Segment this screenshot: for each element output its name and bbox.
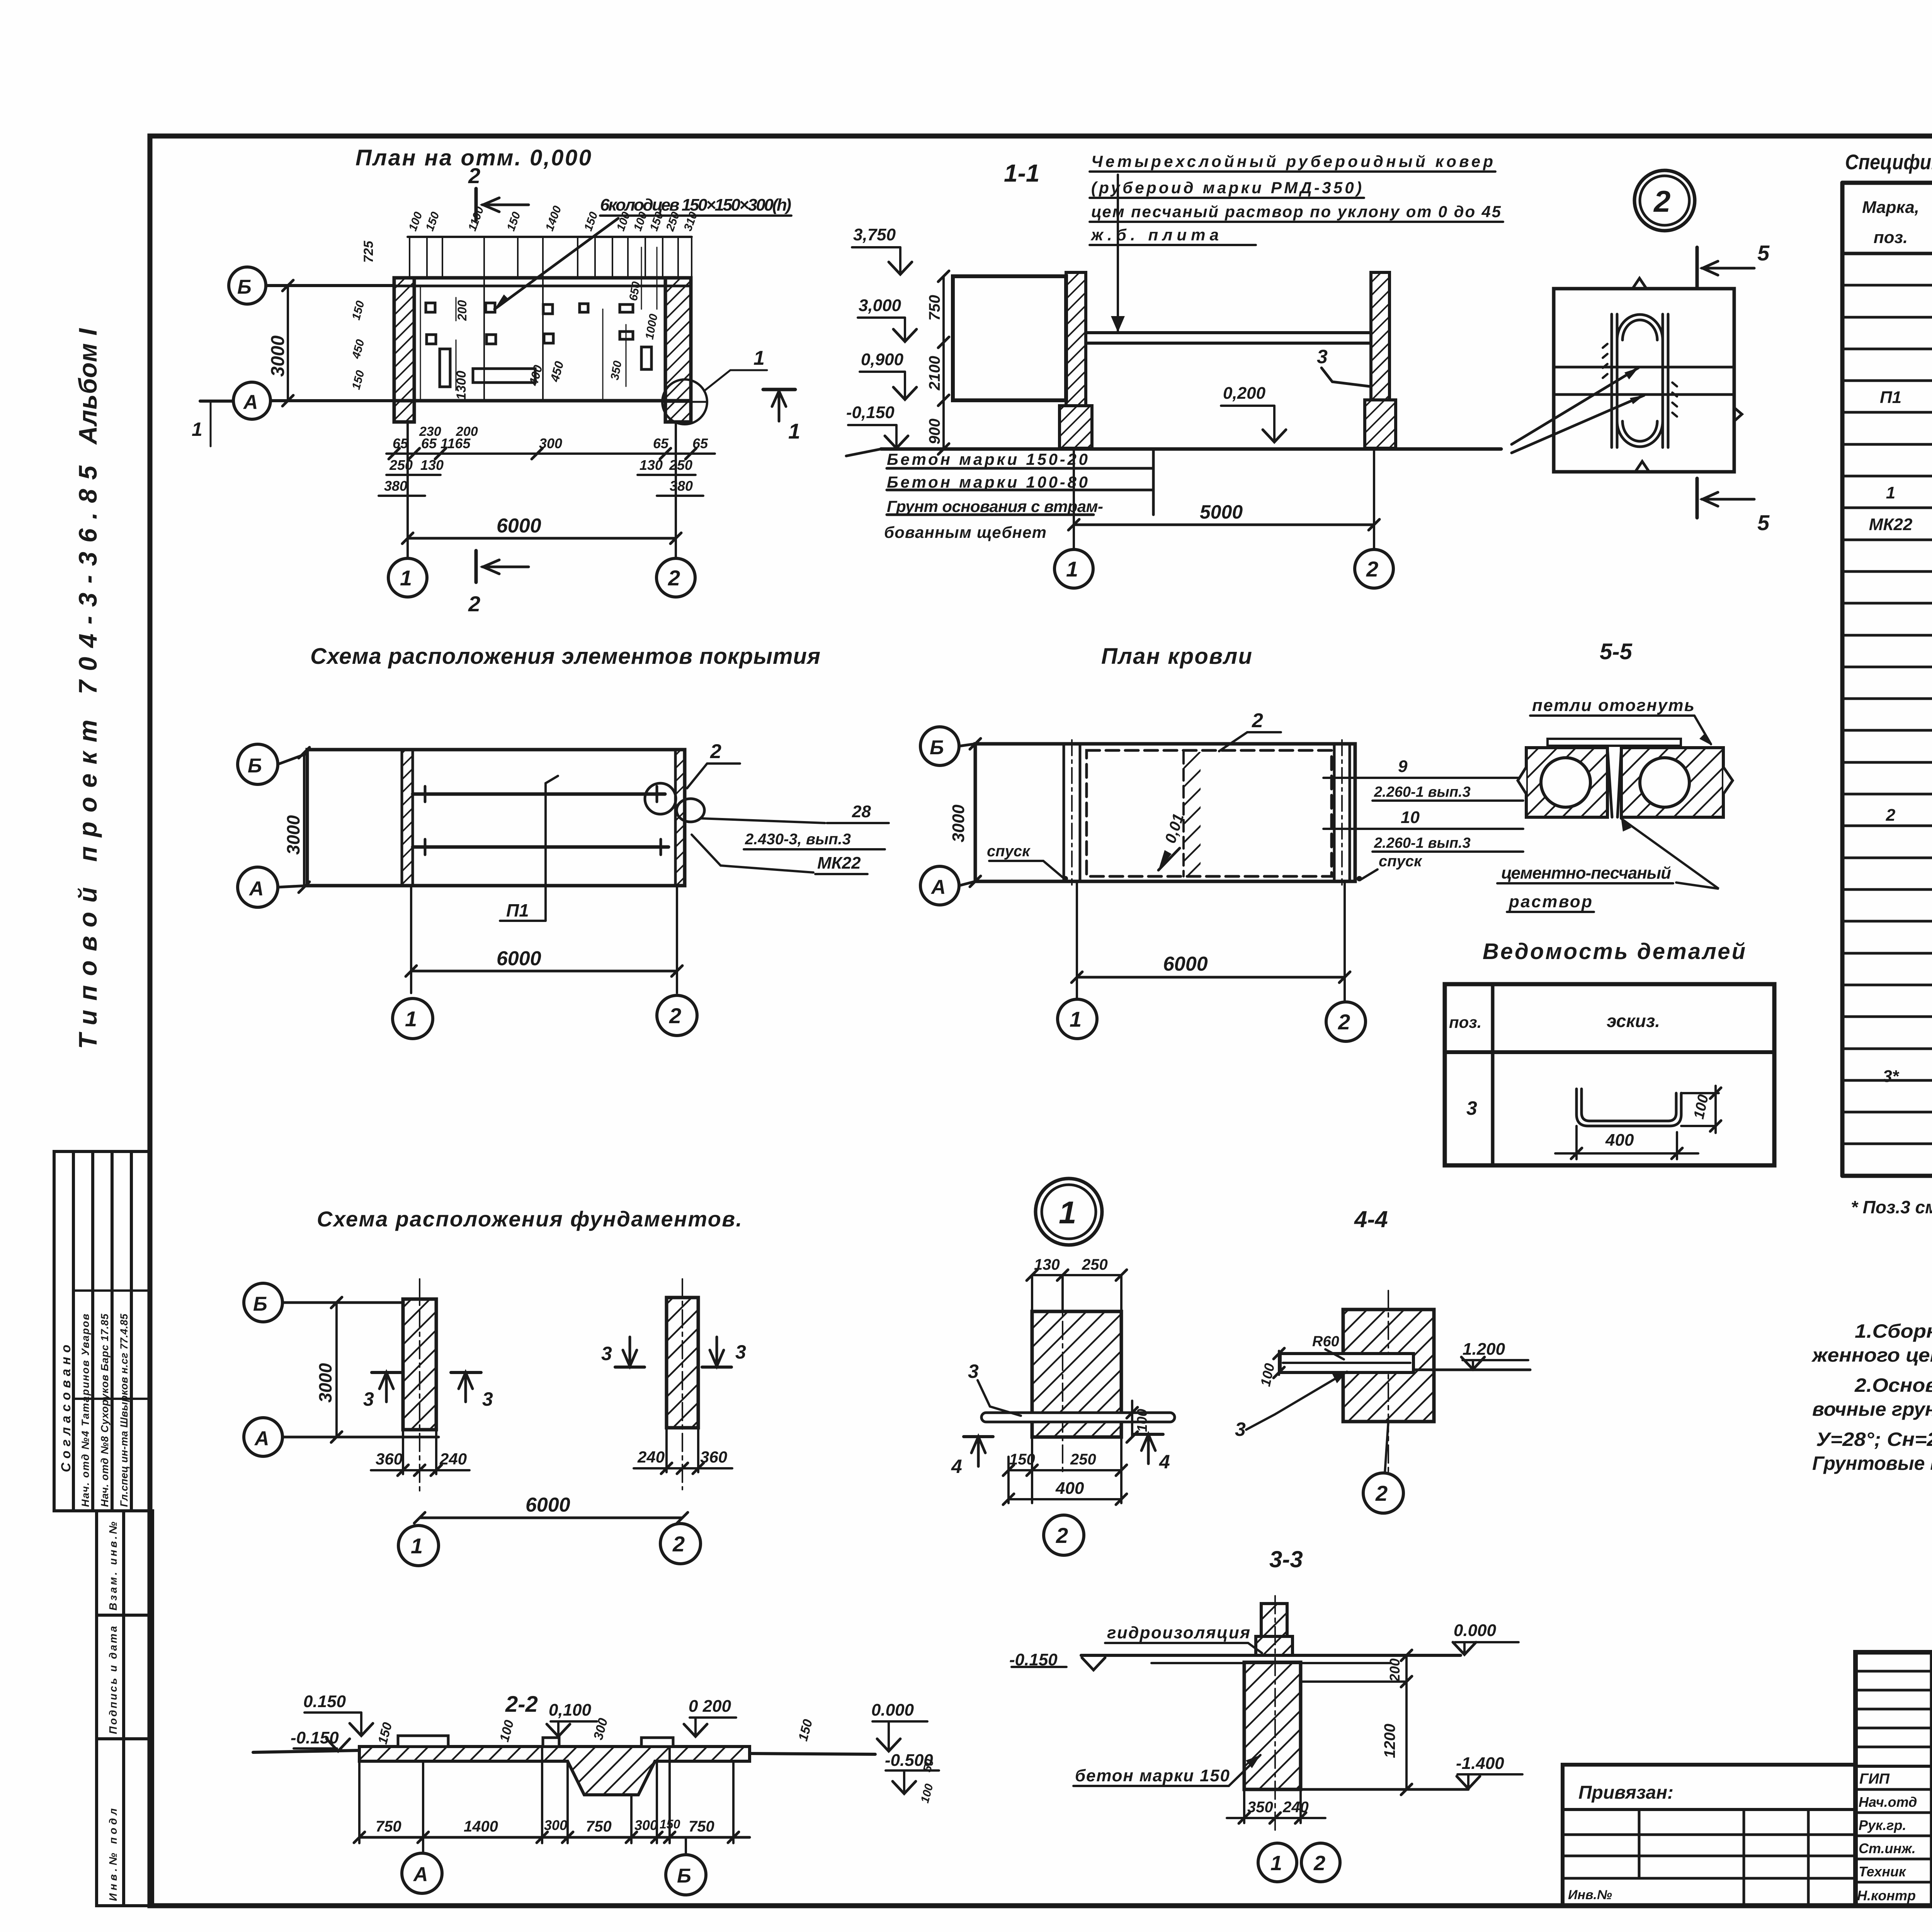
- svg-text:2: 2: [1366, 557, 1378, 581]
- svg-text:1: 1: [1270, 1852, 1282, 1875]
- svg-text:МК22: МК22: [817, 854, 861, 872]
- svg-text:150: 150: [1009, 1451, 1035, 1468]
- svg-text:5000: 5000: [1200, 501, 1243, 523]
- svg-text:9: 9: [1398, 757, 1408, 776]
- svg-text:П1: П1: [506, 900, 529, 920]
- svg-text:-0,150: -0,150: [846, 403, 895, 422]
- svg-text:1: 1: [192, 418, 202, 440]
- svg-text:-1.400: -1.400: [1456, 1754, 1504, 1773]
- svg-text:2100: 2100: [926, 356, 943, 391]
- svg-text:2: 2: [1056, 1523, 1068, 1548]
- svg-text:240: 240: [637, 1448, 665, 1466]
- svg-text:1-1: 1-1: [1004, 159, 1040, 187]
- svg-text:400: 400: [1055, 1479, 1084, 1498]
- svg-text:2: 2: [668, 566, 680, 590]
- svg-text:Нач. отд №4 Татаринов Уваро: Нач. отд №4 Татаринов Уваров: [80, 1314, 91, 1507]
- svg-text:100: 100: [1257, 1362, 1278, 1388]
- svg-text:П1: П1: [1880, 388, 1901, 407]
- svg-text:3,750: 3,750: [853, 225, 896, 244]
- svg-text:0,900: 0,900: [861, 350, 904, 369]
- svg-text:360: 360: [700, 1448, 727, 1466]
- svg-text:65: 65: [393, 435, 408, 451]
- svg-text:бетон марки 150: бетон марки 150: [1075, 1766, 1230, 1785]
- svg-text:2: 2: [468, 592, 480, 616]
- svg-text:1: 1: [1886, 483, 1895, 502]
- svg-text:360: 360: [376, 1450, 403, 1468]
- svg-text:спуск: спуск: [987, 843, 1031, 860]
- svg-text:Марка,: Марка,: [1862, 198, 1919, 217]
- svg-text:Техник: Техник: [1859, 1864, 1906, 1879]
- svg-text:10: 10: [1401, 808, 1420, 827]
- svg-text:230: 230: [419, 424, 441, 439]
- svg-text:2: 2: [468, 163, 480, 188]
- svg-text:Ведомость деталей: Ведомость деталей: [1483, 939, 1745, 964]
- svg-text:650: 650: [627, 281, 643, 302]
- svg-text:Спецификация к схемам располож: Спецификация к схемам расположения конст…: [1845, 150, 1932, 174]
- svg-text:Ст.инж.: Ст.инж.: [1859, 1840, 1916, 1856]
- svg-text:100: 100: [1134, 1409, 1150, 1432]
- svg-text:Взам. инв.№: Взам. инв.№: [107, 1522, 119, 1611]
- svg-text:2.260-1 вып.3: 2.260-1 вып.3: [1374, 784, 1471, 800]
- svg-text:Привязан:: Привязан:: [1578, 1782, 1673, 1803]
- svg-text:380: 380: [384, 478, 407, 494]
- svg-text:Бетон марки 150-20: Бетон марки 150-20: [887, 450, 1088, 468]
- svg-text:0.000: 0.000: [871, 1701, 914, 1719]
- svg-text:200: 200: [455, 300, 469, 321]
- svg-text:150: 150: [350, 299, 367, 321]
- svg-text:2.260-1 вып.3: 2.260-1 вып.3: [1374, 835, 1471, 851]
- svg-text:750: 750: [926, 295, 943, 321]
- svg-text:400: 400: [1605, 1131, 1634, 1150]
- svg-text:150: 150: [660, 1817, 680, 1831]
- svg-text:4: 4: [951, 1456, 962, 1477]
- svg-text:Инв.№: Инв.№: [1568, 1888, 1612, 1902]
- svg-text:1: 1: [788, 419, 800, 443]
- svg-text:2: 2: [1886, 806, 1896, 825]
- svg-text:3: 3: [1466, 1097, 1477, 1119]
- svg-text:150: 150: [796, 1718, 815, 1743]
- svg-text:150: 150: [423, 210, 442, 233]
- svg-text:240: 240: [439, 1450, 467, 1468]
- svg-text:3: 3: [601, 1343, 612, 1364]
- svg-text:300: 300: [634, 1817, 658, 1833]
- svg-text:3: 3: [363, 1388, 374, 1410]
- svg-text:5: 5: [1757, 510, 1770, 535]
- svg-text:6колодцев 150×150×300(h): 6колодцев 150×150×300(h): [600, 196, 791, 214]
- svg-text:350: 350: [608, 360, 624, 381]
- svg-text:вочные грунты с нормативными: вочные грунты с нормативными характерист…: [1812, 1398, 1932, 1420]
- svg-text:150: 150: [375, 1721, 395, 1746]
- svg-text:450: 450: [548, 360, 566, 384]
- svg-text:цементно-песчаный: цементно-песчаный: [1501, 864, 1671, 883]
- svg-text:Н.контр: Н.контр: [1857, 1888, 1916, 1903]
- svg-text:6000: 6000: [1163, 953, 1208, 975]
- svg-text:2: 2: [1338, 1010, 1350, 1034]
- svg-text:1: 1: [400, 566, 412, 590]
- svg-text:Инв.№ подл: Инв.№ подл: [107, 1808, 119, 1901]
- svg-text:Нач.отд: Нач.отд: [1859, 1794, 1917, 1810]
- svg-text:3*: 3*: [1883, 1067, 1899, 1086]
- svg-text:450: 450: [350, 338, 367, 361]
- svg-text:3: 3: [1317, 346, 1328, 367]
- svg-text:1: 1: [405, 1007, 417, 1031]
- svg-text:спуск: спуск: [1379, 853, 1422, 870]
- svg-text:3: 3: [1235, 1418, 1246, 1440]
- svg-text:4: 4: [1159, 1451, 1170, 1473]
- svg-text:Б: Б: [237, 276, 252, 298]
- svg-text:поз.: поз.: [1874, 228, 1908, 247]
- svg-text:100: 100: [497, 1718, 517, 1743]
- svg-text:1300: 1300: [454, 371, 469, 400]
- svg-text:725: 725: [361, 240, 376, 263]
- svg-text:R60: R60: [1312, 1333, 1339, 1350]
- svg-text:А: А: [248, 878, 264, 900]
- svg-text:Типовой проект 704-3-36.85: Типовой проект 704-3-36.85: [73, 465, 102, 1049]
- svg-text:300: 300: [544, 1817, 567, 1833]
- svg-text:750: 750: [689, 1818, 714, 1835]
- svg-text:6000: 6000: [497, 515, 541, 537]
- svg-text:1: 1: [753, 347, 765, 369]
- svg-text:1: 1: [1066, 557, 1078, 581]
- svg-text:Б: Б: [930, 736, 944, 759]
- svg-text:петли отогнуть: петли отогнуть: [1532, 696, 1694, 715]
- svg-text:900: 900: [926, 418, 943, 444]
- svg-text:0,100: 0,100: [549, 1701, 592, 1719]
- svg-text:3: 3: [968, 1361, 979, 1382]
- svg-text:гидроизоляция: гидроизоляция: [1107, 1623, 1250, 1642]
- svg-text:1200: 1200: [1381, 1724, 1398, 1758]
- svg-text:МК22: МК22: [1869, 515, 1913, 534]
- svg-text:65: 65: [692, 435, 708, 451]
- svg-text:3000: 3000: [949, 804, 968, 842]
- svg-text:Согласовано: Согласовано: [59, 1345, 73, 1472]
- svg-text:ГИП: ГИП: [1859, 1771, 1890, 1787]
- svg-text:Грунт основания с втрам-: Грунт основания с втрам-: [887, 497, 1103, 515]
- svg-text:А: А: [930, 876, 946, 898]
- svg-text:Рук.гр.: Рук.гр.: [1859, 1817, 1906, 1833]
- svg-text:65: 65: [653, 435, 669, 451]
- svg-text:150: 150: [505, 210, 523, 233]
- svg-text:* Поз.3 см. ведомость де: * Поз.3 см. ведомость деталей: [1851, 1197, 1932, 1217]
- svg-text:350: 350: [1247, 1799, 1273, 1816]
- svg-text:Б: Б: [677, 1865, 691, 1887]
- svg-text:2: 2: [669, 1003, 681, 1028]
- svg-text:100: 100: [1691, 1093, 1712, 1121]
- svg-text:бованным щебнет: бованным щебнет: [884, 523, 1046, 541]
- svg-text:2: 2: [672, 1532, 685, 1556]
- svg-text:1000: 1000: [643, 313, 660, 340]
- svg-text:Схема расположения фундаментов: Схема расположения фундаментов.: [317, 1207, 742, 1231]
- svg-text:3000: 3000: [283, 815, 303, 855]
- svg-text:6000: 6000: [526, 1494, 570, 1516]
- svg-text:3000: 3000: [268, 335, 288, 377]
- svg-text:2: 2: [1653, 184, 1670, 218]
- svg-text:150: 150: [582, 210, 600, 233]
- svg-text:1400: 1400: [464, 1818, 498, 1835]
- svg-text:2: 2: [1313, 1852, 1325, 1875]
- svg-text:100: 100: [406, 210, 425, 233]
- svg-text:5-5: 5-5: [1600, 639, 1633, 664]
- svg-text:380: 380: [670, 478, 693, 494]
- svg-text:женного цементно-песчаного рас: женного цементно-песчаного раствора толщ…: [1811, 1344, 1932, 1366]
- svg-text:-0.150: -0.150: [1009, 1650, 1058, 1669]
- svg-text:1.200: 1.200: [1463, 1340, 1505, 1359]
- svg-text:Схема расположения элементов: Схема расположения элементов покрытия: [310, 644, 820, 669]
- svg-text:4-4: 4-4: [1354, 1206, 1388, 1232]
- svg-text:3-3: 3-3: [1269, 1546, 1303, 1572]
- svg-text:раствор: раствор: [1509, 892, 1592, 911]
- svg-text:1.Сборные железобетонные плиты: 1.Сборные железобетонные плиты укладыват…: [1855, 1320, 1932, 1342]
- svg-text:2.430-3, вып.3: 2.430-3, вып.3: [745, 831, 851, 848]
- svg-text:Бетон марки 100-80: Бетон марки 100-80: [887, 473, 1088, 491]
- svg-text:250: 250: [389, 457, 413, 473]
- svg-text:1: 1: [1059, 1195, 1077, 1230]
- svg-text:А: А: [254, 1427, 269, 1450]
- svg-text:240: 240: [1282, 1799, 1309, 1816]
- svg-text:Альбом I: Альбом I: [73, 328, 102, 445]
- svg-text:У=28°; Сн=2кПа (0,02 кгс/см²): У=28°; Сн=2кПа (0,02 кгс/см²); Е=15МПа (…: [1816, 1429, 1932, 1450]
- svg-text:0 200: 0 200: [689, 1697, 731, 1716]
- svg-text:Нач. отд №8 Сухоруков Барс: Нач. отд №8 Сухоруков Барс 17.85: [99, 1313, 111, 1507]
- svg-text:130: 130: [639, 457, 663, 473]
- svg-text:эскиз.: эскиз.: [1607, 1011, 1660, 1031]
- svg-text:ж.б. плита: ж.б. плита: [1090, 226, 1219, 244]
- svg-text:130: 130: [1034, 1256, 1060, 1273]
- svg-text:150: 150: [350, 369, 367, 391]
- svg-text:Грунтовые воды отсутствуют: Грунтовые воды отсутствуют: [1812, 1452, 1932, 1474]
- svg-text:А: А: [413, 1863, 428, 1886]
- svg-text:1400: 1400: [543, 204, 564, 233]
- svg-text:6000: 6000: [497, 947, 541, 970]
- svg-text:250: 250: [1070, 1451, 1096, 1468]
- svg-text:750: 750: [586, 1818, 612, 1835]
- svg-text:2: 2: [1252, 709, 1263, 732]
- svg-text:2-2: 2-2: [505, 1692, 538, 1717]
- svg-text:цем песчаный раствор по укло: цем песчаный раствор по уклону от 0 до 4…: [1091, 202, 1501, 221]
- svg-text:2.Основанием под фундаменты п: 2.Основанием под фундаменты приняты непу…: [1854, 1374, 1932, 1396]
- svg-text:300: 300: [539, 435, 562, 451]
- svg-text:750: 750: [376, 1818, 401, 1835]
- svg-text:-0.150: -0.150: [291, 1728, 339, 1747]
- svg-text:2: 2: [1375, 1481, 1388, 1505]
- svg-text:200: 200: [456, 424, 478, 439]
- svg-text:250: 250: [1082, 1256, 1108, 1273]
- svg-text:Б: Б: [248, 755, 262, 777]
- svg-text:Б: Б: [253, 1293, 267, 1315]
- svg-text:200: 200: [1387, 1658, 1403, 1682]
- svg-text:А: А: [243, 391, 258, 413]
- svg-text:100: 100: [918, 1782, 936, 1804]
- svg-text:3: 3: [735, 1341, 746, 1363]
- svg-text:3,000: 3,000: [859, 296, 901, 315]
- svg-text:Подпись и дата: Подпись и дата: [107, 1626, 119, 1734]
- svg-text:28: 28: [852, 802, 871, 821]
- svg-text:5: 5: [1757, 241, 1770, 265]
- svg-text:1: 1: [1070, 1007, 1082, 1031]
- svg-text:2: 2: [710, 740, 721, 763]
- svg-text:0.150: 0.150: [303, 1692, 346, 1711]
- svg-text:1100: 1100: [466, 205, 486, 233]
- svg-text:130: 130: [420, 457, 444, 473]
- svg-text:Четырехслойный рубероидный ков: Четырехслойный рубероидный ковер: [1091, 152, 1493, 170]
- svg-text:0,200: 0,200: [1223, 384, 1266, 403]
- svg-text:План кровли: План кровли: [1101, 644, 1252, 669]
- svg-text:поз.: поз.: [1449, 1013, 1481, 1031]
- svg-text:(рубероид марки РМД-350): (рубероид марки РМД-350): [1091, 179, 1362, 197]
- svg-text:250: 250: [669, 457, 692, 473]
- svg-text:3: 3: [482, 1388, 493, 1410]
- svg-text:1: 1: [411, 1534, 423, 1558]
- svg-text:0.000: 0.000: [1454, 1621, 1497, 1640]
- svg-text:Гл.спец ин-та Швырков н.сг: Гл.спец ин-та Швырков н.сг 77.4.85: [118, 1313, 130, 1507]
- svg-text:3000: 3000: [315, 1363, 335, 1403]
